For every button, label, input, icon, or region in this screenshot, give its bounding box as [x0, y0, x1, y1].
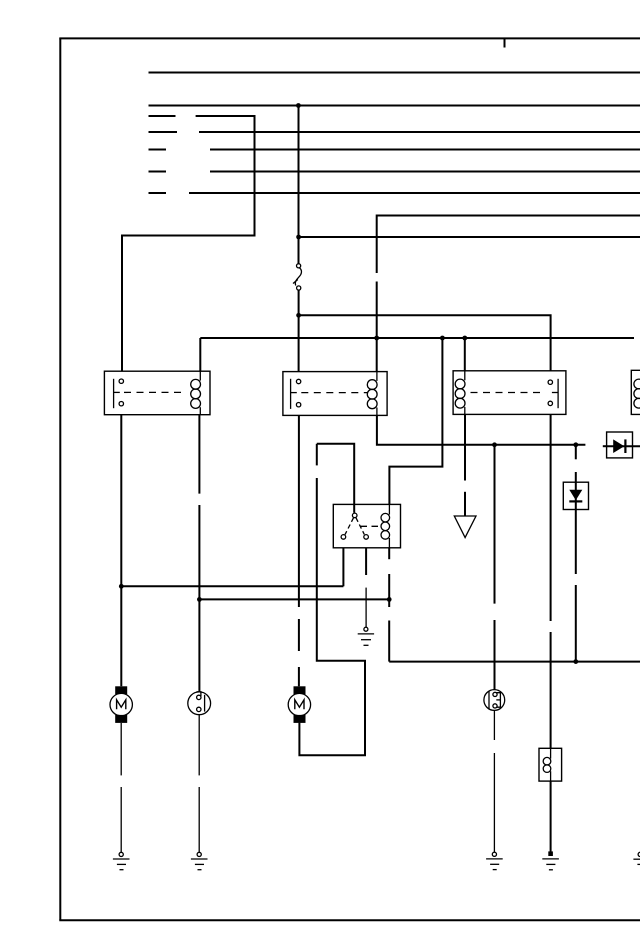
ground G6 partial terminal	[638, 852, 640, 856]
wire row 3	[210, 149, 640, 151]
relay K1 switch terminal top	[119, 379, 123, 383]
wire stub row 5	[149, 192, 167, 194]
wire park switch feed seg1	[494, 445, 496, 604]
wire bus y237 right	[299, 236, 640, 238]
park switch S2 bracket tick	[496, 699, 500, 701]
wire row 1	[196, 115, 255, 117]
relay K1 dashed link	[124, 391, 186, 393]
wire row 4	[210, 171, 640, 173]
ground G5 bar1	[358, 633, 374, 635]
zener diode ZD cathode bar	[569, 500, 582, 502]
wire K2 switch bottom seg2	[298, 619, 300, 651]
relay K2 coil	[376, 372, 378, 381]
wire K3 switch bottom seg2	[550, 632, 552, 748]
zener diode ZD triangle	[569, 490, 582, 501]
wire K1 coil bottom down seg1	[198, 415, 200, 494]
wire link row1 to relay K1	[122, 115, 255, 371]
relay K2 armature tick	[291, 392, 297, 394]
position switch S1 contact top	[197, 695, 201, 699]
wire K1 switch bottom down	[120, 415, 122, 687]
wire stub row 3	[149, 149, 167, 151]
ground G1 bar1	[113, 858, 130, 860]
wire K3 switch bottom seg1	[550, 414, 552, 621]
wire row 2	[199, 131, 640, 133]
border frame left	[59, 38, 61, 920]
wire S1 to ground seg2	[198, 787, 200, 852]
wire bus y338	[200, 337, 634, 339]
wire S2 to ground seg1	[493, 710, 495, 740]
wire bus row B	[149, 105, 640, 107]
node on bus B	[296, 103, 301, 108]
wire zener stub from bus445	[575, 445, 577, 460]
solenoid L1 box	[539, 748, 562, 781]
wire K5 contact a down to line A	[342, 548, 344, 587]
park switch S2 body	[484, 690, 505, 711]
border frame bottom	[59, 919, 640, 921]
border frame top	[59, 37, 640, 39]
ground G3 bar1	[486, 858, 503, 860]
node bus445 park switch	[492, 442, 497, 447]
motor M1 body	[110, 693, 132, 715]
ground G4 bar3	[549, 869, 553, 871]
ground G4 bar1	[542, 858, 559, 860]
park switch S2 contact top	[493, 692, 497, 696]
node K2 coil on bus y338	[374, 336, 379, 341]
wire K5 coil bottom seg2	[388, 574, 390, 607]
wire stub row 2	[149, 131, 178, 133]
wire vertical to breaker	[298, 106, 300, 264]
position switch S1 contact bottom	[197, 707, 201, 711]
node line B left	[197, 597, 202, 602]
wire M1 to ground seg1	[120, 723, 122, 776]
relay K2 box	[283, 372, 387, 416]
wire K3 coil bottom seg2	[464, 492, 466, 516]
ground G3 terminal	[492, 852, 496, 856]
wire stub row 1	[149, 115, 176, 117]
wire S1 to ground seg1	[198, 715, 200, 776]
relay K1 coil	[199, 371, 201, 380]
relay K2 dashed link	[301, 392, 367, 394]
solenoid L1 coil	[550, 748, 552, 758]
ground G5 terminal	[364, 627, 368, 631]
node bus445 zener	[573, 442, 578, 447]
park switch S2 contact bottom	[493, 704, 497, 708]
ground G1 terminal	[119, 852, 123, 856]
zener diode ZD wire	[575, 482, 577, 509]
ground G1 bar3	[120, 869, 124, 871]
relay K5 contact b	[364, 535, 369, 540]
diode D1 box	[607, 432, 633, 458]
position switch S1 hook	[197, 692, 201, 696]
wire K1 coil bottom down seg2	[198, 505, 200, 692]
node zener on bus y661	[573, 659, 578, 664]
motor M3 top brush	[294, 686, 306, 694]
position switch S1 body	[188, 692, 211, 715]
relay K3 armature tick	[552, 392, 558, 394]
ground G6 bar1	[633, 858, 640, 860]
circuit breaker element	[295, 268, 301, 286]
node bus338 x465	[462, 336, 467, 341]
wire S2 to ground seg2	[493, 753, 495, 852]
wire L1 to ground	[550, 781, 552, 853]
wire K1 coil top	[199, 338, 201, 371]
wire bus y315 to relay K3	[299, 315, 551, 371]
motor M3 body	[288, 693, 310, 715]
relay K1 armature bar	[113, 379, 115, 408]
relay K5 dashed link	[361, 525, 382, 527]
relay K5 common terminal	[352, 513, 357, 518]
wire K5 coil bottom seg3 to bus	[388, 621, 390, 662]
ground G2 bar1	[191, 858, 208, 860]
ground G2 bar3	[198, 869, 202, 871]
wire K3 coil bottom seg1	[464, 414, 466, 480]
wire K2 switch bottom seg1	[298, 415, 300, 607]
motor M1 bottom brush	[115, 715, 127, 723]
ground G4 bar2	[546, 863, 555, 865]
diode D1 wire through	[607, 445, 640, 447]
wire K2 coil top lower	[376, 282, 378, 372]
ground G2 bar2	[195, 863, 204, 865]
node K1-M1 line A	[119, 584, 124, 589]
wire dashed K2 coil top upper	[376, 272, 378, 274]
relay K5 coil	[388, 504, 390, 514]
ground G3 bar3	[493, 869, 497, 871]
ground G3 bar2	[490, 863, 499, 865]
ground G5 bar3	[364, 644, 369, 646]
wire K5 contact b down seg2	[365, 588, 367, 628]
wire K5 contact b down seg1	[365, 548, 367, 575]
ground G2 terminal	[197, 852, 201, 856]
relay K5 contact a	[341, 535, 346, 540]
relay K3 dashed link	[471, 392, 543, 394]
relay K3 switch terminal top	[548, 380, 552, 384]
motor M1 label	[117, 700, 126, 710]
relay K1 box	[104, 371, 210, 415]
relay K2 switch terminal top	[296, 379, 300, 383]
wire K2 coil bottom to bus y445	[377, 415, 586, 444]
node breaker-relay K2	[296, 313, 301, 318]
motor M3 bottom brush	[294, 715, 306, 723]
connector triangle	[454, 516, 476, 538]
ground G5 bar2	[361, 639, 371, 641]
circuit breaker contact bottom	[297, 286, 301, 290]
relay K5 contact arm a	[345, 518, 354, 535]
wire bus y215	[377, 216, 640, 274]
node line B right	[387, 597, 392, 602]
node on bus y237	[296, 235, 301, 240]
relay K5 contact arm b	[356, 518, 364, 535]
relay K3 armature bar	[557, 379, 559, 408]
wire bus338 to K5 coil	[389, 338, 442, 504]
wire zener top segment	[575, 472, 577, 482]
wire bus row A	[149, 72, 640, 74]
wire breaker to relay K2	[298, 290, 300, 372]
relay K3 box	[453, 371, 566, 415]
wire line B	[199, 598, 389, 600]
wire line A	[121, 585, 343, 587]
ground G6 bar2	[637, 863, 640, 865]
ground G1 bar2	[117, 863, 126, 865]
wire park switch feed seg2	[494, 620, 496, 690]
position switch S1 bar	[204, 695, 206, 712]
relay K1 switch terminal bottom	[119, 402, 123, 406]
node bus338 x442	[440, 336, 445, 341]
relay K3 switch terminal bottom	[548, 401, 552, 405]
motor M3 label	[295, 700, 304, 710]
wire row 5	[189, 192, 640, 194]
wire K2 switch bottom seg3	[298, 667, 300, 686]
wire motor M3 link seg2	[299, 478, 365, 755]
wire M1 to ground seg2	[120, 787, 122, 852]
wire zener bottom seg1	[575, 510, 577, 575]
wire K3 coil top	[464, 338, 466, 371]
wire motor M3 link upper	[317, 444, 354, 513]
wire zener bottom seg2	[575, 585, 577, 662]
park switch S2 bracket	[496, 693, 500, 708]
diode D1 triangle	[613, 439, 624, 453]
wire K5 coil bottom seg1	[388, 548, 390, 559]
relay K5 box	[333, 504, 400, 547]
ground G4 terminal	[548, 851, 553, 856]
relay K2 switch terminal bottom	[296, 403, 300, 407]
relay K4 partial coil	[634, 379, 640, 389]
park switch S2 bar	[488, 691, 490, 709]
wire bus y661	[389, 661, 640, 663]
motor M1 top brush	[115, 686, 127, 694]
border tick mark	[504, 38, 506, 47]
diode D1 wire stub left	[603, 445, 607, 447]
wire stub row 4	[149, 171, 167, 173]
relay K3 coil	[464, 371, 466, 381]
relay K4 partial box	[631, 370, 640, 414]
circuit breaker tick	[293, 280, 298, 284]
relay K1 armature tick	[114, 391, 120, 393]
wire motor M3 link seg1	[316, 444, 318, 466]
circuit breaker contact top	[297, 264, 301, 268]
relay K2 armature bar	[290, 379, 292, 409]
zener diode ZD box	[563, 482, 588, 509]
diode D1 cathode bar	[624, 439, 626, 453]
